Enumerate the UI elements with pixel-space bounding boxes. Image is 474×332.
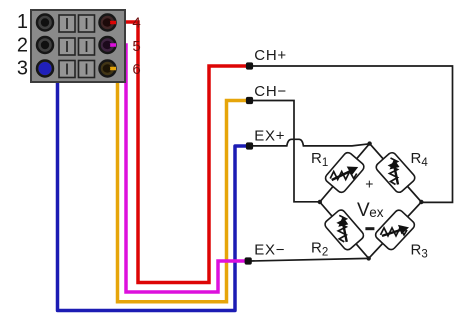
- connector slot row1 right: [79, 15, 95, 32]
- pin label 3: [17, 58, 28, 80]
- svg-text:EX−: EX−: [254, 242, 285, 259]
- terminal dot EX+: [246, 142, 253, 149]
- label R2: [311, 240, 328, 259]
- connector slot row2 left: [59, 38, 75, 55]
- label CH+: [254, 47, 287, 64]
- pin label 2: [17, 35, 28, 57]
- node right (CH+): [419, 200, 423, 204]
- svg-text:CH−: CH−: [254, 83, 287, 100]
- pin label 5 (dark red, on wire): [132, 38, 140, 55]
- label R1: [311, 150, 328, 169]
- label EX-: [254, 242, 285, 259]
- wire EX- line to bridge bottom node: [251, 258, 369, 261]
- resistor R4 (strain gauge, top-right arm): [374, 151, 416, 194]
- wire magenta stub into pin 5: [103, 41, 116, 49]
- label R3: [411, 242, 428, 261]
- pin label 1: [17, 11, 28, 33]
- pin label 4 (dark red, on wire): [132, 15, 140, 32]
- node left (CH-): [318, 200, 322, 204]
- svg-text:5: 5: [132, 38, 140, 55]
- pin 2 hole: [37, 37, 53, 53]
- label R4: [411, 150, 429, 169]
- svg-text:6: 6: [132, 61, 140, 78]
- pin 5 hole with magenta wire: [100, 37, 116, 53]
- pin label 6 (dark red, on wire): [132, 61, 140, 78]
- terminal dot EX-: [245, 257, 252, 264]
- wire orange (pin6 to CH-): [106, 69, 246, 302]
- wire red stub into pin 4: [103, 19, 116, 27]
- svg-text:CH+: CH+: [254, 47, 287, 64]
- resistor R3 (strain gauge, bottom-right arm): [374, 208, 416, 251]
- label - (excitation polarity): [365, 227, 374, 230]
- wire EX+ line with hop to bridge top node: [251, 139, 370, 146]
- svg-text:3: 3: [17, 58, 28, 80]
- connector slot row2 right: [79, 38, 95, 55]
- terminal dot CH-: [246, 97, 253, 104]
- svg-text:EX+: EX+: [254, 128, 285, 145]
- wire magenta (pin5 to EX-): [106, 45, 246, 292]
- svg-text:2: 2: [17, 35, 28, 57]
- pin 6 hole with orange wire: [100, 61, 116, 77]
- connector J1 body: [31, 10, 125, 82]
- label EX+: [254, 128, 285, 145]
- connector slot row1 left: [59, 15, 75, 32]
- resistor R1 (strain gauge, top-left arm): [324, 151, 366, 194]
- svg-text:+: +: [365, 176, 373, 192]
- pin 4 hole with red wire: [100, 15, 116, 31]
- wire orange stub into pin 6: [103, 65, 116, 73]
- bridge diamond wires: [320, 144, 422, 259]
- label Vex: [357, 200, 384, 221]
- resistor R2 (strain gauge, bottom-left arm): [323, 208, 365, 251]
- svg-text:4: 4: [132, 15, 140, 32]
- connector slot row3 right: [79, 61, 95, 78]
- wire CH+ line to bridge right node: [251, 66, 453, 202]
- wire red (pin4 to CH+): [106, 22, 248, 283]
- wire CH- line to bridge left node: [251, 101, 320, 202]
- connector slot row3 left: [59, 61, 75, 78]
- label CH-: [254, 83, 287, 100]
- svg-text:1: 1: [17, 11, 28, 33]
- node bottom (EX-): [367, 256, 371, 260]
- label + (excitation polarity): [365, 176, 373, 192]
- pin 1 hole: [37, 15, 53, 31]
- pin 3 hole with blue wire: [37, 61, 53, 77]
- node top (EX+): [367, 141, 371, 145]
- terminal dot CH+: [246, 62, 253, 69]
- wire blue (pin3 to EX+): [45, 69, 246, 311]
